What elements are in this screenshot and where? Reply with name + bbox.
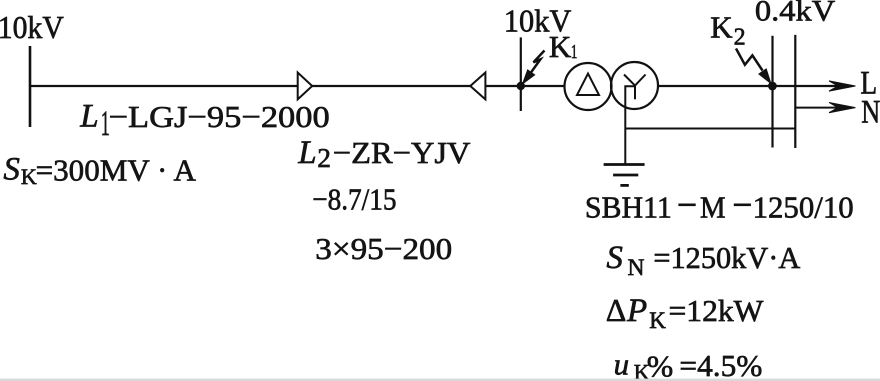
bottom page rule xyxy=(0,379,880,381)
L feeder arrowhead xyxy=(829,81,855,91)
N feeder wire with arrowhead xyxy=(795,107,828,109)
svg-text:Δ: Δ xyxy=(606,292,627,328)
svg-text:SBH11: SBH11 xyxy=(585,189,672,224)
svg-text:1250/10: 1250/10 xyxy=(753,189,854,224)
ground symbol xyxy=(604,165,645,186)
svg-text:%: % xyxy=(647,348,674,381)
svg-text:−8.7/15: −8.7/15 xyxy=(312,181,396,216)
svg-text:P: P xyxy=(626,293,647,329)
node K2 junction dot xyxy=(768,82,777,91)
wire vertical tick at K1 node xyxy=(520,37,522,111)
bus S (left 10kV busbar) xyxy=(29,46,32,127)
svg-text:K: K xyxy=(649,308,666,333)
node K1 junction dot xyxy=(517,82,525,90)
wire neutral from wye down xyxy=(625,86,635,163)
bus 0.4kV neutral bar xyxy=(794,35,796,148)
K1 fault lightning arrow xyxy=(530,51,545,75)
svg-text:1: 1 xyxy=(571,41,578,63)
svg-text:N: N xyxy=(628,255,645,281)
svg-text:S: S xyxy=(3,152,20,188)
svg-text:=300MV · A: =300MV · A xyxy=(36,152,197,187)
wye symbol inside secondary xyxy=(624,75,646,100)
svg-text:K: K xyxy=(549,29,572,64)
svg-text:L: L xyxy=(79,99,98,135)
svg-text:−ZR−YJV: −ZR−YJV xyxy=(333,135,471,170)
svg-text:=1250kV·A: =1250kV·A xyxy=(653,240,800,275)
svg-text:K: K xyxy=(21,164,37,189)
K2 fault lightning arrow xyxy=(736,49,763,71)
svg-text:=4.5%: =4.5% xyxy=(679,348,762,381)
svg-text:2: 2 xyxy=(317,142,331,173)
wire main line xyxy=(30,85,840,87)
transformer T1 secondary winding circle (wye) xyxy=(611,62,658,109)
svg-text:=12kW: =12kW xyxy=(669,293,765,328)
svg-text:10kV: 10kV xyxy=(0,9,64,45)
wire neutral branch to N bus xyxy=(625,128,795,130)
transformer T1 primary winding circle (delta) xyxy=(565,63,612,110)
bus 0.4kV phase bar xyxy=(771,36,773,148)
cable terminal left (triangle on L2, pointing right) xyxy=(298,73,313,100)
svg-text:N: N xyxy=(861,94,880,130)
cable terminal right (triangle on L2, pointing left) xyxy=(470,73,485,100)
svg-text:K: K xyxy=(710,10,733,45)
svg-text:S: S xyxy=(606,240,623,276)
svg-text:0.4kV: 0.4kV xyxy=(755,0,836,28)
svg-text:L: L xyxy=(297,135,316,171)
delta symbol inside primary xyxy=(577,74,599,95)
svg-text:2: 2 xyxy=(734,25,746,51)
svg-text:M: M xyxy=(700,189,726,224)
svg-text:3×95−200: 3×95−200 xyxy=(315,231,452,266)
svg-text:u: u xyxy=(614,346,630,381)
svg-text:−LGJ−95−2000: −LGJ−95−2000 xyxy=(109,99,330,134)
